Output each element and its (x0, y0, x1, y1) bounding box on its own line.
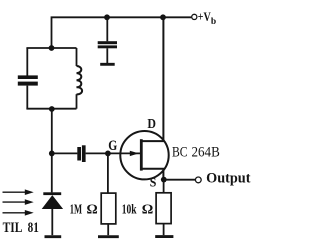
ground photodiode (45, 235, 62, 238)
svg-text:Output: Output (206, 170, 251, 186)
photodiode D1 cathode bar (43, 192, 61, 195)
inductor L1 top lead (76, 48, 78, 66)
wire top supply rail (52, 17, 192, 48)
wire output (164, 179, 196, 181)
ground R1 (98, 235, 119, 238)
wire tank bottom side (26, 108, 76, 110)
node S output junction (161, 177, 167, 183)
transistor Q1 gate arrow (130, 151, 139, 156)
svg-text:1M: 1M (70, 201, 83, 216)
capacitor C1 plates (18, 75, 38, 85)
ground R2 (155, 235, 173, 238)
wire S to R2 (163, 180, 165, 193)
capacitor C2 bypass top lead (106, 17, 108, 41)
node tank bottom (49, 106, 55, 112)
light arrow 3 (3, 210, 34, 216)
svg-text:+V: +V (198, 10, 211, 24)
svg-text:Ω: Ω (142, 202, 154, 217)
inductor L1 winding (77, 66, 83, 94)
wire coupling cap to gate (86, 152, 142, 154)
node junction rail to bypass cap (104, 14, 110, 20)
resistor R2 10k body (156, 193, 171, 224)
svg-text:b: b (211, 17, 216, 27)
resistor R1 1M body (101, 193, 116, 224)
svg-text:S: S (150, 174, 157, 189)
svg-text:BC: BC (172, 145, 188, 161)
wire diode to ground (51, 209, 53, 235)
light arrow 1 (3, 189, 34, 195)
svg-text:81: 81 (28, 220, 39, 236)
svg-text:G: G (108, 138, 117, 154)
node junction rail to drain (160, 14, 166, 20)
inductor L1 bottom lead (76, 94, 78, 109)
node gate tap (49, 151, 55, 157)
ground bypass cap (100, 63, 115, 66)
svg-text:264B: 264B (192, 145, 220, 161)
svg-text:Ω: Ω (87, 201, 98, 216)
svg-text:D: D (147, 116, 156, 131)
wire R1 to ground (107, 224, 109, 235)
photodiode D1 anode triangle (42, 195, 63, 209)
wire C2 to ground (106, 48, 108, 63)
transistor Q1 drain lead (141, 17, 163, 141)
node tank top (49, 45, 55, 51)
wire tank top side (26, 47, 76, 49)
terminal output (195, 177, 201, 183)
light arrow 2 (3, 199, 34, 205)
transistor Q1 source lead (141, 169, 163, 180)
transistor Q1 envelope circle (120, 131, 168, 179)
wire tank down to photodiode (51, 109, 53, 193)
wire gate tap to coupling cap (52, 152, 78, 154)
svg-text:10k: 10k (122, 202, 137, 217)
wire C1 bottom lead (26, 86, 28, 109)
terminal +Vb (192, 14, 197, 19)
capacitor C1 tank top lead (26, 48, 28, 76)
capacitor C2 plates (98, 41, 117, 48)
capacitor C3 coupling plates (77, 145, 85, 162)
node G (105, 151, 111, 157)
svg-text:TIL: TIL (3, 220, 23, 236)
wire G down to R1 (107, 153, 109, 193)
transistor Q1 channel bar (140, 139, 143, 170)
wire R2 to ground (163, 224, 165, 236)
